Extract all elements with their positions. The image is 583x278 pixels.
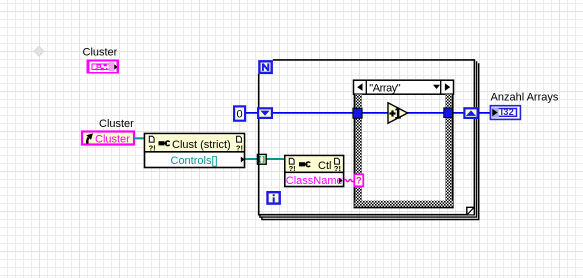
- svg-text:?: ?: [356, 175, 362, 186]
- blue I32 wire across diagram: [246, 112, 491, 114]
- svg-text:0: 0: [237, 109, 243, 121]
- origin marker diamond: [34, 46, 44, 56]
- page glyph left: [289, 158, 296, 173]
- control refnum terminal "Cluster": [82, 132, 134, 146]
- increment function +1: [388, 103, 408, 123]
- svg-text:?!: ?!: [334, 164, 341, 173]
- wire: Controls[] output to tunnel to Ctl property node (teal): [244, 158, 286, 160]
- loop count terminal N: [259, 61, 271, 73]
- shift register left (down arrow): [258, 108, 272, 118]
- case structure selector "Array": [354, 80, 454, 94]
- svg-text:?!: ?!: [289, 164, 296, 173]
- refnum class glyph: [299, 162, 310, 167]
- svg-text:Cluster: Cluster: [83, 47, 118, 59]
- svg-text:?!: ?!: [236, 144, 243, 153]
- case tunnel left (blue): [353, 108, 362, 118]
- property node U2 "Ctl": [285, 156, 344, 187]
- label: Cluster (top constant): [83, 47, 118, 59]
- svg-text:Ctl: Ctl: [318, 160, 331, 172]
- svg-text:Clust (strict): Clust (strict): [172, 139, 231, 151]
- label: Anzahl Arrays: [491, 92, 559, 104]
- case structure border (checkered) left band: [354, 94, 362, 208]
- case structure border right band: [445, 94, 453, 208]
- cluster constant icon: [87, 60, 120, 74]
- svg-text:ClassName: ClassName: [286, 175, 343, 187]
- unwired class conflict box "?": [354, 174, 363, 186]
- broken wire squiggle (magenta): [344, 179, 354, 181]
- svg-text:Cluster: Cluster: [99, 118, 134, 130]
- page glyph right: [334, 158, 341, 173]
- iteration terminal i: [268, 192, 280, 203]
- case structure border bottom band: [354, 201, 454, 208]
- label: Cluster (refnum control): [99, 118, 134, 130]
- svg-text:?!: ?!: [149, 144, 156, 153]
- svg-text:Anzahl Arrays: Anzahl Arrays: [491, 92, 559, 104]
- svg-text:I32: I32: [500, 107, 514, 117]
- auto-index tunnel on loop border: [257, 154, 266, 164]
- svg-text:Controls[]: Controls[]: [171, 155, 218, 167]
- property node U1 "Clust (strict)": [145, 134, 245, 168]
- for loop frame (stacked pages): [259, 60, 479, 220]
- refnum class glyph: [159, 141, 170, 146]
- numeric constant 0: [234, 106, 245, 120]
- svg-text:Cluster: Cluster: [95, 134, 130, 146]
- page glyph left: [149, 136, 156, 152]
- wire: refnum to property node (teal): [134, 137, 146, 139]
- indicator I32 "Anzahl Arrays": [490, 106, 520, 120]
- case tunnel right (blue): [444, 108, 453, 118]
- svg-text:"Array": "Array": [369, 82, 400, 94]
- shift register right (up arrow): [464, 108, 477, 118]
- page fold at loop bottom-right: [467, 207, 474, 214]
- page glyph right: [236, 136, 243, 152]
